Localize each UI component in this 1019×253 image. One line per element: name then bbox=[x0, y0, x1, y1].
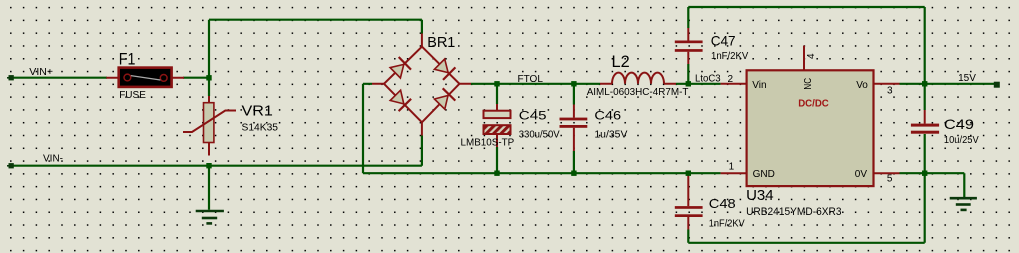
svg-text:5: 5 bbox=[887, 174, 893, 185]
svg-text:4: 4 bbox=[806, 53, 817, 59]
svg-text:VIN+: VIN+ bbox=[29, 67, 53, 78]
svg-text:C47: C47 bbox=[711, 33, 736, 49]
svg-text:FUSE: FUSE bbox=[119, 90, 146, 101]
svg-text:BR1: BR1 bbox=[427, 34, 455, 51]
svg-text:GND: GND bbox=[753, 169, 775, 180]
svg-text:1nF/2KV: 1nF/2KV bbox=[711, 51, 749, 62]
svg-text:10u/25V: 10u/25V bbox=[944, 135, 979, 146]
svg-text:15V: 15V bbox=[958, 73, 976, 84]
svg-text:C48: C48 bbox=[709, 197, 736, 211]
svg-text:1u/35V: 1u/35V bbox=[594, 130, 627, 141]
svg-text:0V: 0V bbox=[855, 169, 868, 180]
svg-text:1: 1 bbox=[729, 161, 735, 172]
svg-text:3: 3 bbox=[887, 86, 893, 97]
svg-text:FTOL: FTOL bbox=[518, 74, 544, 85]
svg-text:Vin: Vin bbox=[752, 80, 766, 91]
svg-text:U34: U34 bbox=[746, 187, 774, 204]
svg-text:DC/DC: DC/DC bbox=[798, 98, 829, 109]
svg-text:2: 2 bbox=[728, 74, 734, 85]
svg-text:330u/50V: 330u/50V bbox=[519, 130, 560, 141]
svg-text:L2: L2 bbox=[612, 53, 630, 71]
svg-text:C45: C45 bbox=[519, 110, 547, 122]
svg-text:C46: C46 bbox=[594, 109, 621, 123]
svg-text:AIML-0603HC-4R7M-T: AIML-0603HC-4R7M-T bbox=[587, 87, 689, 98]
svg-text:C49: C49 bbox=[944, 116, 974, 132]
svg-text:LtoC3: LtoC3 bbox=[695, 73, 721, 84]
svg-text:1nF/2KV: 1nF/2KV bbox=[709, 218, 745, 229]
svg-text:NC: NC bbox=[803, 78, 814, 90]
svg-text:URB2415YMD-6XR3: URB2415YMD-6XR3 bbox=[746, 206, 841, 218]
svg-text:VR1: VR1 bbox=[242, 102, 273, 119]
svg-text:S14K35: S14K35 bbox=[242, 122, 279, 133]
svg-text:VIN-: VIN- bbox=[43, 153, 63, 164]
svg-text:LMB10S-TP: LMB10S-TP bbox=[461, 138, 515, 149]
svg-text:Vo: Vo bbox=[856, 80, 868, 91]
svg-text:F1: F1 bbox=[119, 50, 136, 69]
